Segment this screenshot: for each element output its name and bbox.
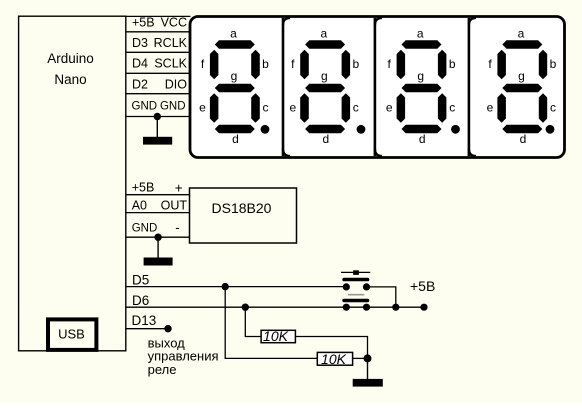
wire: DS18B20 row line 3 — [127, 236, 190, 238]
SW1 contact bar — [342, 278, 369, 282]
svg-text:c: c — [449, 101, 455, 115]
wire: DS18B20 row line 2 — [127, 212, 190, 214]
wire: D5 junction to R2 — [225, 287, 317, 359]
ground symbol (display) — [143, 137, 172, 145]
svg-text:+5B: +5B — [132, 180, 155, 194]
svg-text:d: d — [419, 132, 426, 146]
svg-text:D3: D3 — [132, 36, 148, 50]
7-segment digit 3 — [386, 27, 460, 147]
digit 1 segment f — [210, 50, 219, 79]
svg-text:c: c — [353, 101, 359, 115]
svg-text:a: a — [518, 27, 525, 41]
digit 3 segment a — [402, 40, 442, 48]
svg-text:a: a — [417, 27, 424, 41]
svg-text:e: e — [487, 101, 494, 115]
wire: ground node stub — [367, 358, 369, 380]
SW2 terminal left — [343, 304, 350, 311]
digit 2 segment c — [342, 93, 351, 122]
digit 1 segment g — [215, 84, 255, 92]
terminal: +5B supply — [420, 304, 427, 311]
junction: D5 node — [222, 283, 229, 290]
resistor R2 10K — [317, 352, 352, 365]
digit 1 segment c — [251, 93, 260, 122]
svg-text:a: a — [230, 27, 237, 41]
digit 4 segment f — [497, 50, 506, 79]
junction: +5B rail node — [392, 304, 399, 311]
digit 1 segment d — [215, 125, 255, 133]
svg-text:10K: 10K — [263, 328, 289, 344]
svg-text:D4: D4 — [132, 57, 148, 71]
svg-text:b: b — [262, 57, 269, 71]
digit 3 decimal point — [451, 125, 460, 134]
SW2 actuator bar — [348, 294, 364, 296]
svg-text:GND: GND — [160, 100, 186, 112]
svg-text:a: a — [320, 27, 327, 41]
svg-text:реле: реле — [148, 362, 177, 377]
wire: DS18B20 GND stub — [157, 237, 159, 258]
junction: resistor ground node — [364, 354, 372, 362]
svg-text:c: c — [550, 101, 556, 115]
wire: R2 to ground node — [353, 357, 368, 359]
7-segment digit 4 — [487, 27, 557, 147]
svg-text:g: g — [417, 69, 424, 83]
svg-text:-: - — [175, 220, 180, 235]
junction: D6 node — [242, 304, 249, 311]
svg-text:DIO: DIO — [165, 78, 188, 92]
digit 4 decimal point — [546, 125, 555, 134]
wire: D6 — [126, 306, 424, 308]
wire: R1 to ground node — [295, 337, 367, 359]
digit 2 segment e — [300, 93, 309, 122]
temperature sensor DS18B20 U2 — [190, 188, 297, 243]
svg-text:RCLK: RCLK — [154, 36, 188, 50]
svg-text:Arduino: Arduino — [47, 51, 94, 66]
digit 3 segment e — [397, 93, 406, 122]
wire: D6 junction to R1 — [245, 307, 261, 336]
7-segment digit 2 — [289, 27, 365, 147]
svg-text:+5B: +5B — [132, 15, 155, 29]
push button SW1 — [341, 270, 370, 290]
SW2 contact bar — [342, 299, 369, 303]
wire: display header row line 1 — [126, 31, 191, 33]
svg-text:d: d — [232, 132, 239, 146]
svg-text:VCC: VCC — [161, 15, 187, 29]
svg-text:D6: D6 — [132, 293, 149, 308]
svg-text:g: g — [321, 69, 328, 83]
SW1 actuator square — [353, 270, 359, 275]
wire: display header row line 0 — [126, 15, 191, 17]
digit 4 segment g — [502, 84, 542, 92]
digit 2 segment f — [300, 50, 309, 79]
junction: display GND — [154, 113, 161, 120]
svg-text:g: g — [231, 69, 238, 83]
ground symbol (resistors) — [353, 379, 383, 387]
digit 3 segment f — [397, 50, 406, 79]
SW2 terminal right — [363, 304, 370, 311]
svg-text:e: e — [289, 101, 296, 115]
svg-text:10K: 10K — [321, 351, 347, 367]
wire: DS18B20 row line 1 — [127, 194, 190, 196]
wire: display header row line 5 — [126, 116, 191, 118]
digit 3 segment c — [438, 93, 447, 122]
display digit divider 1 — [282, 18, 285, 156]
Arduino Nano U1 — [19, 16, 126, 351]
svg-text:d: d — [322, 132, 329, 146]
svg-text:D5: D5 — [132, 272, 149, 287]
push button SW2 — [342, 295, 370, 311]
digit 4 segment b — [539, 50, 547, 79]
svg-text:SCLK: SCLK — [154, 57, 187, 71]
resistor R1 10K — [261, 330, 295, 342]
svg-text:+: + — [175, 180, 183, 195]
digit 3 segment d — [402, 125, 442, 133]
svg-text:d: d — [520, 132, 527, 146]
digit 1 decimal point — [261, 125, 270, 134]
digit 1 segment b — [251, 50, 260, 79]
display digit divider 2 — [374, 18, 377, 156]
junction: DS18B20 GND — [154, 234, 161, 241]
digit 4 segment d — [502, 125, 542, 133]
digit 4 segment c — [539, 93, 547, 122]
ground symbol (DS18B20) — [144, 258, 173, 266]
wire: display header row line 3 — [126, 72, 191, 74]
svg-text:b: b — [550, 57, 557, 71]
wire: GND stub — [156, 117, 158, 139]
svg-text:g: g — [518, 69, 525, 83]
svg-text:DS18B20: DS18B20 — [212, 200, 272, 216]
svg-text:b: b — [449, 57, 456, 71]
terminal: D13 relay output — [164, 325, 171, 332]
wire: display header row line 4 — [126, 93, 191, 95]
digit 3 segment g — [402, 84, 442, 92]
SW1 terminal right — [363, 283, 370, 290]
4-digit 7-segment display module — [190, 17, 565, 158]
digit 2 decimal point — [357, 125, 366, 134]
digit 2 segment d — [305, 125, 345, 133]
svg-text:GND: GND — [132, 222, 158, 234]
svg-text:b: b — [352, 57, 359, 71]
wire: display header row line 2 — [126, 51, 191, 53]
digit 4 segment e — [497, 93, 506, 122]
digit 1 segment e — [210, 93, 219, 122]
digit 2 segment a — [305, 40, 345, 48]
7-segment digit 1 — [199, 27, 269, 147]
wire: D13 stub — [126, 328, 168, 330]
digit 3 segment b — [438, 50, 447, 79]
svg-text:D13: D13 — [132, 313, 157, 328]
svg-text:OUT: OUT — [161, 199, 188, 213]
svg-text:A0: A0 — [132, 199, 147, 213]
svg-text:e: e — [386, 101, 393, 115]
SW1 terminal left — [343, 283, 350, 290]
svg-text:Nano: Nano — [54, 72, 86, 87]
svg-text:GND: GND — [132, 100, 158, 112]
wire: SW1 to +5B rail — [367, 287, 396, 307]
svg-text:+5B: +5B — [410, 278, 435, 294]
svg-text:c: c — [263, 101, 269, 115]
SW1 actuator bar — [341, 271, 370, 273]
digit 4 segment a — [502, 40, 542, 48]
svg-text:USB: USB — [58, 327, 85, 342]
digit 2 segment b — [342, 50, 351, 79]
wire: D5 — [126, 286, 347, 288]
USB connector J1 — [48, 319, 96, 350]
digit 2 segment g — [305, 84, 345, 92]
svg-text:e: e — [199, 101, 206, 115]
svg-text:D2: D2 — [132, 78, 148, 92]
display digit divider 3 — [468, 18, 471, 156]
digit 1 segment a — [215, 40, 255, 48]
